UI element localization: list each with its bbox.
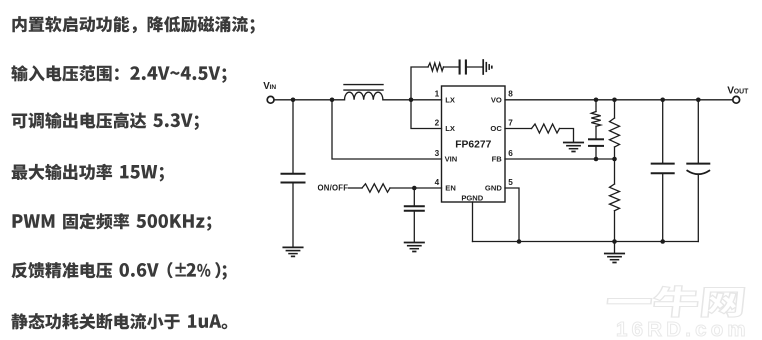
svg-text:VO: VO — [491, 96, 502, 105]
capacitor C5 (output) — [652, 163, 674, 165]
wire C4 to FB — [595, 147, 597, 159]
feature text line 4: 最大输出功率 15W； — [12, 164, 164, 182]
wire R1 to C2 — [444, 66, 459, 68]
node VIN pin tap — [330, 98, 335, 103]
svg-text:OUT: OUT — [734, 89, 749, 96]
svg-text:7: 7 — [508, 118, 513, 127]
wire VO rail — [505, 99, 733, 101]
capacitor C6 (output, polarized) — [687, 163, 709, 165]
ground snubber (rotated) — [482, 60, 484, 74]
resistor R1 (snubber) — [428, 63, 444, 71]
node VO C6 — [696, 98, 701, 103]
feature text line 1: 内置软启动功能，降低励磁涌流； — [12, 16, 254, 34]
terminal VIN circle — [267, 96, 274, 103]
ground OC — [564, 142, 583, 144]
wire VIN to pin 3 — [332, 100, 442, 159]
svg-text:4: 4 — [435, 178, 440, 187]
node VO R4 — [594, 98, 599, 103]
wire R2 to pin 4 — [390, 187, 442, 189]
feature text line 2: 输入电压范围：2.4V~4.5V； — [11, 65, 226, 83]
svg-text:3: 3 — [435, 149, 440, 158]
capacitor C4 (feedforward) — [589, 138, 603, 140]
node gnd-rail divider — [612, 239, 617, 244]
node VO R5 — [612, 98, 617, 103]
wire R3 to ground — [560, 129, 574, 143]
ground EN — [405, 242, 424, 244]
wire FB to R6 — [614, 159, 616, 184]
inductor L1 — [345, 92, 383, 100]
svg-text:2: 2 — [435, 118, 440, 127]
resistor R6 (divider bottom) — [610, 184, 620, 211]
wire EN cap bottom — [413, 212, 415, 243]
svg-text:5: 5 — [508, 178, 513, 187]
wire C5 bottom — [662, 174, 664, 241]
node input cap tap — [291, 98, 296, 103]
node EN cap tap — [412, 186, 417, 191]
svg-text:8: 8 — [508, 90, 513, 99]
feature text line 3: 可调输出电压高达 5.3V； — [12, 112, 199, 130]
node VO C5 — [660, 98, 665, 103]
wire C2 to ground — [467, 66, 482, 68]
svg-text:OC: OC — [490, 124, 502, 133]
feature text line 7: 静态功耗关断电流小于 1uA。 — [11, 313, 227, 330]
wire LX node to pin 2 — [411, 100, 442, 129]
capacitor C3 (EN) — [405, 205, 424, 207]
svg-text:ON/OFF: ON/OFF — [318, 184, 349, 193]
capacitor C2 (snubber) — [459, 61, 461, 74]
terminal VOUT circle — [733, 96, 740, 103]
svg-text:EN: EN — [445, 184, 456, 193]
svg-text:6: 6 — [508, 149, 513, 158]
node FB right — [612, 157, 617, 162]
svg-text:1: 1 — [435, 90, 440, 99]
wire GND pin 5 down — [505, 188, 519, 242]
wire VIN rail to inductor — [274, 99, 344, 101]
wire PGND down — [472, 202, 474, 242]
wire R6 to gnd rail — [614, 211, 616, 242]
svg-text:GND: GND — [485, 184, 502, 193]
node FB left — [594, 157, 599, 162]
wire inductor to pin 1 — [383, 99, 442, 101]
wire pin 7 to R3 — [505, 128, 532, 130]
wire EN cap top — [413, 188, 415, 205]
wire input cap top — [292, 100, 294, 173]
wire LX node up to snubber — [411, 67, 428, 100]
op-amp U1 FP6277 body — [442, 86, 506, 202]
node gnd-rail pin5 — [517, 239, 522, 244]
resistor R4 (feedforward) — [591, 112, 600, 127]
wire FB rail — [505, 158, 615, 160]
ground main — [605, 253, 624, 255]
wire gnd stub — [614, 242, 616, 254]
svg-text:FB: FB — [492, 155, 503, 164]
node gnd-rail C5 — [660, 239, 665, 244]
resistor R5 (divider top) — [610, 118, 620, 147]
node LX snubber tap — [409, 98, 414, 103]
wire C5 top — [662, 100, 664, 163]
wire bottom ground rail — [473, 241, 699, 243]
feature text line 6: 反馈精准电压 0.6V （±2%）； — [12, 262, 227, 280]
wire R4 to C4 — [595, 126, 597, 138]
svg-text:LX: LX — [445, 96, 455, 105]
wire C6 bottom — [697, 175, 699, 241]
wire input cap bottom — [292, 184, 294, 248]
wire VO to R4 — [595, 100, 597, 112]
resistor R3 (OC) — [532, 124, 560, 133]
label VOUT terminal — [727, 86, 749, 97]
wire ON/OFF to R2 — [349, 187, 363, 189]
svg-text:PGND: PGND — [461, 194, 483, 203]
resistor R2 (EN) — [362, 184, 390, 192]
wire VO to R5 — [614, 100, 616, 118]
capacitor C1 (input) — [282, 173, 305, 175]
svg-text:FP6277: FP6277 — [455, 140, 491, 151]
feature text line 5: PWM 固定频率 500KHz； — [13, 213, 212, 231]
svg-text:VIN: VIN — [445, 155, 458, 164]
label VIN terminal — [263, 81, 276, 92]
svg-text:16RD.com: 16RD.com — [616, 318, 750, 340]
ground input — [283, 246, 302, 248]
wire R5 to FB — [614, 147, 616, 159]
watermark logo 一牛网 — [606, 286, 745, 317]
wire C6 top — [697, 100, 699, 163]
svg-text:LX: LX — [445, 124, 455, 133]
svg-text:IN: IN — [270, 84, 277, 91]
